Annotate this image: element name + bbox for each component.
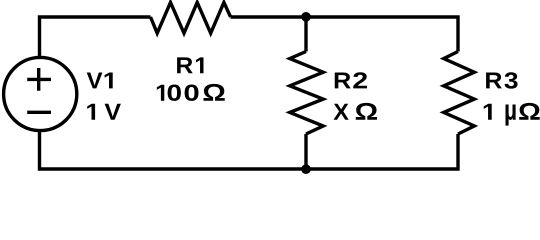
label R1 (177, 57, 193, 73)
resistor R1 (151, 2, 231, 33)
junction dot top node (301, 12, 311, 22)
label V1 (87, 72, 103, 88)
wire top left segment with corner down to V1 (40, 17, 151, 58)
V1 minus sign (27, 111, 51, 114)
value 1 V (87, 104, 95, 120)
wire bottom with corners from V1 to R3 (40, 130, 459, 169)
junction dot bottom node (301, 164, 311, 174)
wire top right segment with corner to R3 (231, 17, 458, 52)
V1 plus sign (27, 68, 51, 91)
resistor R2 (290, 52, 323, 135)
wire R2 top lead (304, 17, 307, 52)
value 100 Ω (157, 85, 164, 101)
resistor R3 (444, 52, 475, 135)
value X Ω (333, 104, 348, 120)
wire R2 bottom lead (304, 134, 307, 169)
label R2 (335, 72, 351, 88)
label R3 (486, 72, 502, 88)
voltage source V1 circle (4, 57, 77, 130)
value 1 µΩ (484, 104, 492, 120)
